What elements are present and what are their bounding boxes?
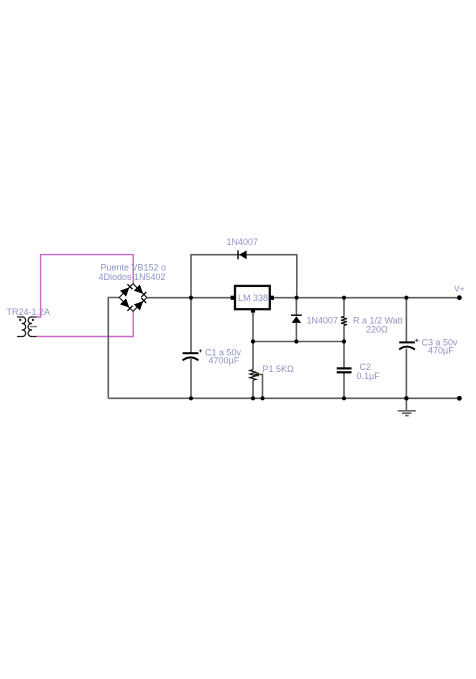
svg-text:4Diodos 1N5402: 4Diodos 1N5402 xyxy=(99,272,166,282)
wire D2 top xyxy=(295,298,297,316)
wire protection diode branch (top) xyxy=(191,255,297,298)
node junction D1 branch/main rail xyxy=(295,296,299,300)
node junction ADJ/P1 xyxy=(251,339,255,343)
svg-text:1N4007: 1N4007 xyxy=(307,315,339,325)
U1 adjust pin xyxy=(251,308,255,312)
wire C3 bottom xyxy=(405,349,407,399)
resistor R zigzag xyxy=(341,317,347,326)
node junction C3/main rail xyxy=(404,296,408,300)
node junction C1/bottom rail xyxy=(189,396,193,400)
capacitor C3 top plate xyxy=(399,341,415,343)
wire bottom rail (0V) xyxy=(108,397,459,399)
bridge diode bottom-right xyxy=(134,297,147,310)
diode D1 1N4007 (top) cathode bar xyxy=(237,250,239,259)
node junction C3-ground/bottom rail xyxy=(404,396,408,400)
capacitor C3 curved plate xyxy=(399,347,415,350)
ground symbol xyxy=(398,411,416,416)
wire bridge AC2 to secondary-bottom (magenta) xyxy=(37,311,134,336)
wire ADJ rail xyxy=(253,341,344,343)
wire ground stub xyxy=(405,398,407,410)
svg-text:0.1µF: 0.1µF xyxy=(357,371,381,381)
node junction C1/main rail xyxy=(189,296,193,300)
svg-text:TR24-1.2A: TR24-1.2A xyxy=(7,307,51,317)
node terminal bottom right xyxy=(457,396,462,401)
C3 polarity plus xyxy=(415,339,418,342)
wire C3 top xyxy=(405,298,407,343)
node junction C2/bottom rail xyxy=(342,396,346,400)
wire R top xyxy=(343,298,345,317)
svg-text:1N4007: 1N4007 xyxy=(227,237,259,247)
svg-text:V+: V+ xyxy=(454,283,465,293)
wire R bottom xyxy=(343,325,345,341)
node terminal V+ xyxy=(457,295,462,300)
transformer TR1 primary coil xyxy=(17,317,26,337)
svg-text:220Ω: 220Ω xyxy=(366,324,388,334)
svg-text:LM 338: LM 338 xyxy=(238,293,268,303)
wire LM338 ADJ drop xyxy=(252,310,254,342)
U1 input pin xyxy=(231,296,235,300)
wire bridge-positive to LM338 input xyxy=(147,297,235,299)
capacitor C1 curved plate xyxy=(183,357,199,360)
node junction P1/bottom rail xyxy=(251,396,255,400)
bridge diode top-left xyxy=(120,284,133,297)
wire C2 bottom xyxy=(343,372,345,398)
diode D2 triangle xyxy=(292,316,302,323)
node junction wiper/bottom rail xyxy=(260,396,264,400)
wire C1 bottom xyxy=(190,359,192,398)
wire P1 wiper to bottom rail xyxy=(257,374,263,398)
op-amp U1 LM338 box xyxy=(235,286,270,309)
wire LM338 output to V+ xyxy=(270,297,459,299)
potentiometer P1 zigzag xyxy=(250,370,256,380)
transformer TR1 core dash xyxy=(30,326,37,328)
svg-text:P1 5KΩ: P1 5KΩ xyxy=(263,364,295,374)
bridge diode top-right xyxy=(134,285,147,298)
node junction D2/ADJ rail xyxy=(294,339,298,343)
C1 polarity plus xyxy=(199,349,202,352)
transformer TR1 phase dot secondary xyxy=(32,319,34,321)
capacitor C2 bottom plate xyxy=(337,371,352,373)
capacitor C2 top plate xyxy=(337,367,352,369)
diode D1 1N4007 (top) triangle xyxy=(239,250,246,259)
U1 output pin xyxy=(270,296,274,300)
svg-text:4700µF: 4700µF xyxy=(209,355,240,365)
wire P1 top xyxy=(252,342,254,370)
bridge diode bottom-left xyxy=(120,298,133,311)
transformer TR1 secondary coil xyxy=(28,317,36,337)
wire D2 bottom xyxy=(295,323,297,342)
wire P1 bottom xyxy=(252,380,254,398)
diode D2 1N4007 (protection to output) cathode bar xyxy=(291,314,302,316)
transformer TR1 phase dot primary xyxy=(19,319,21,321)
node junction R/main rail xyxy=(342,296,346,300)
wire secondary-top to bridge AC1 (magenta) xyxy=(37,255,134,317)
wire C1 top xyxy=(190,298,192,353)
bridge rectifier frame xyxy=(119,284,147,312)
wire C2 top xyxy=(343,342,345,369)
capacitor C1 top plate xyxy=(183,352,199,354)
node junction R/C2 xyxy=(342,339,346,343)
wire bridge-negative to bottom rail xyxy=(108,298,119,399)
P1 wiper arrowhead xyxy=(254,372,259,376)
svg-text:470µF: 470µF xyxy=(428,346,454,356)
